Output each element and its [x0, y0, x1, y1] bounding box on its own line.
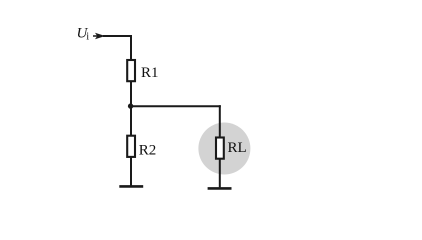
- svg-text:R1: R1: [141, 65, 159, 81]
- wire: top horizontal from arrow to corner: [103, 35, 132, 37]
- wire: RL to ground: [219, 159, 221, 188]
- ground (left): [119, 185, 143, 188]
- input arrow: [93, 35, 98, 37]
- wire: R1 to node: [130, 82, 132, 107]
- resistor R1: [127, 60, 135, 81]
- svg-text:RL: RL: [228, 140, 247, 156]
- wire: node down to R2: [130, 106, 132, 136]
- highlight circle around RL: [198, 123, 250, 175]
- resistor RL: [216, 138, 224, 159]
- svg-text:i: i: [86, 32, 89, 43]
- node junction dot: [128, 103, 133, 108]
- wire: vertical into R1: [130, 35, 132, 60]
- wire: R2 to ground: [130, 157, 132, 186]
- svg-text:R2: R2: [139, 143, 157, 159]
- wire: vertical down into RL: [219, 105, 221, 137]
- ground (right): [208, 187, 232, 190]
- wire: horizontal node to RL branch: [131, 105, 221, 107]
- resistor R2: [127, 136, 135, 157]
